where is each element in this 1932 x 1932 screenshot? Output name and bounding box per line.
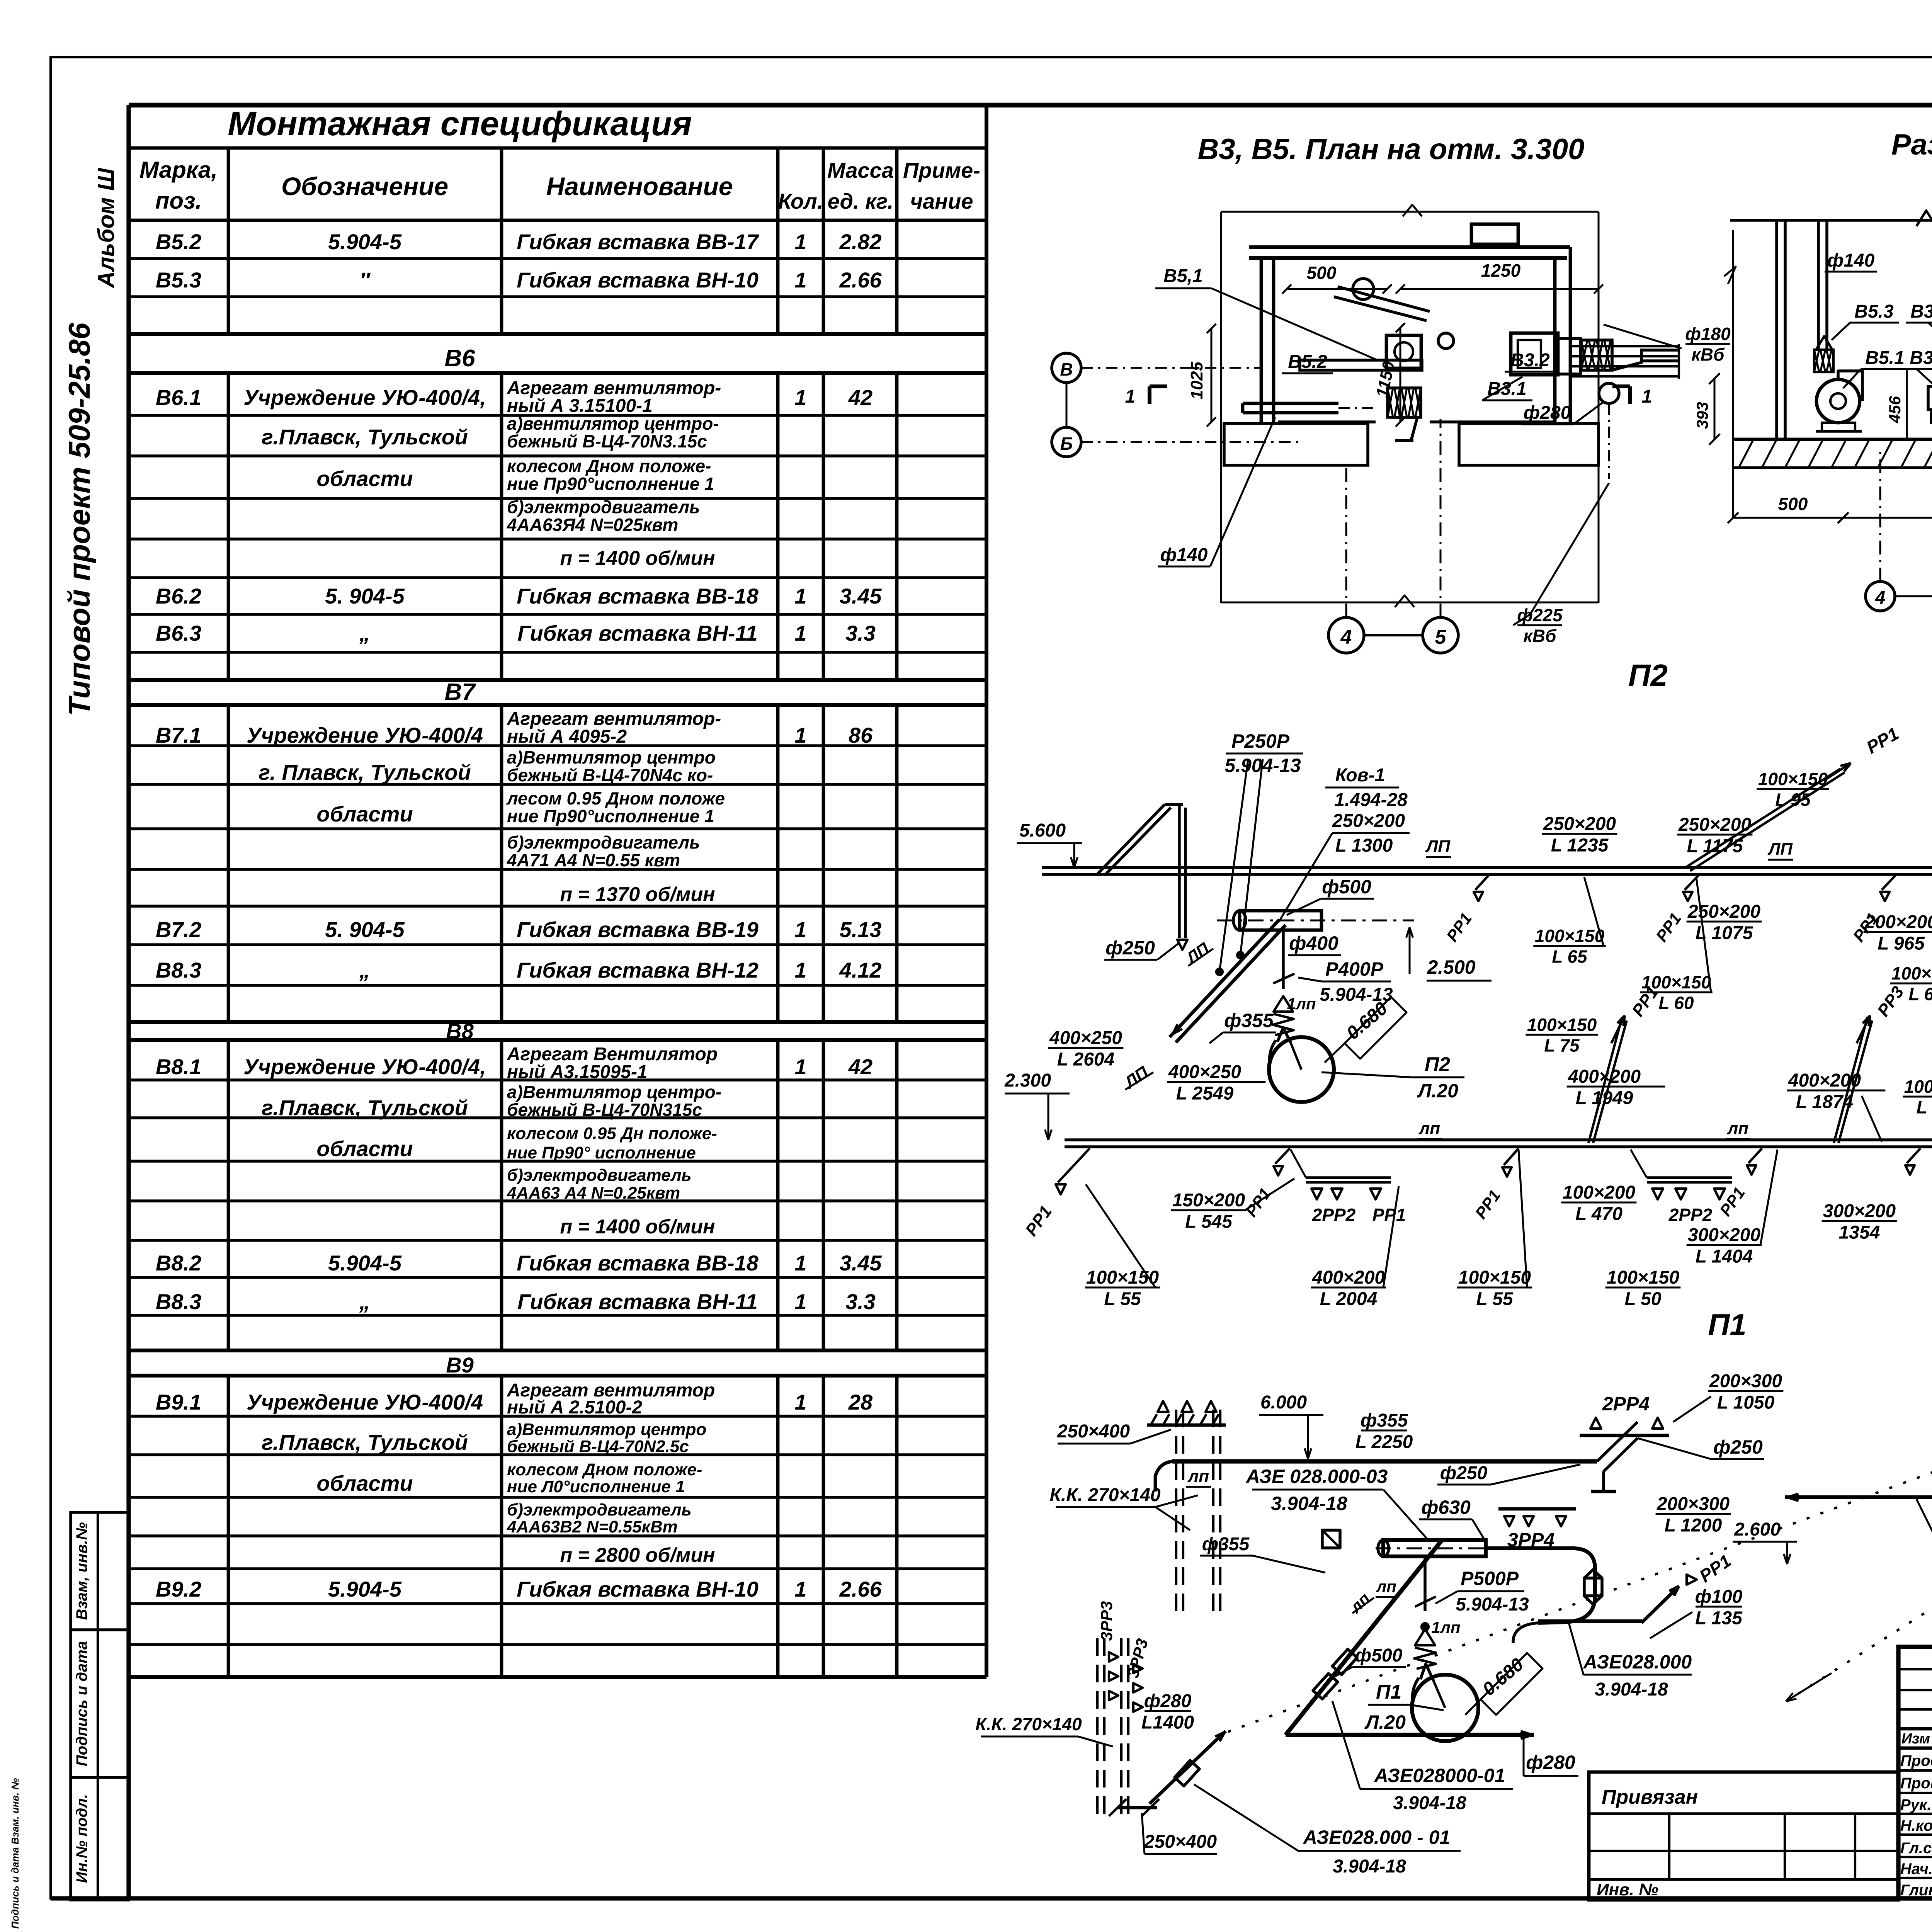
svg-text:3.3: 3.3 (845, 1289, 876, 1314)
svg-text:бежный В-Ц4-70N2.5с: бежный В-Ц4-70N2.5с (507, 1437, 689, 1456)
svg-text:5. 904-5: 5. 904-5 (325, 917, 405, 942)
svg-text:Подпись и дата: Подпись и дата (73, 1641, 90, 1766)
section dim line left (1732, 230, 1734, 518)
plan axis circle 5 (1423, 617, 1458, 653)
svg-text:Приме-: Приме- (903, 158, 980, 182)
plan duct lines through right wall (1570, 345, 1679, 347)
svg-text:В3.1: В3.1 (1487, 379, 1526, 399)
svg-text:колесом Дном положе-: колесом Дном положе- (507, 456, 711, 476)
plan right wall (1553, 258, 1557, 422)
svg-text:ф140: ф140 (1160, 545, 1208, 565)
svg-text:1: 1 (794, 1054, 806, 1079)
svg-text:1: 1 (794, 1577, 806, 1601)
section bottom dim line (1733, 517, 1932, 519)
plan B5 mounting plate (1300, 360, 1422, 370)
svg-text:Р500Р: Р500Р (1461, 1568, 1519, 1589)
svg-text:1: 1 (1642, 386, 1652, 407)
svg-text:1: 1 (794, 621, 806, 645)
svg-text:L 1874: L 1874 (1796, 1092, 1854, 1112)
svg-text:200×300: 200×300 (1656, 1494, 1730, 1514)
svg-text:В9: В9 (446, 1353, 474, 1377)
axis circle V (1052, 353, 1081, 383)
svg-text:5: 5 (1435, 626, 1447, 648)
svg-text:б)электродвигатель: б)электродвигатель (507, 497, 700, 517)
svg-text:П1: П1 (1376, 1681, 1401, 1703)
P2 branch PP1 up from lower line x4120 (1588, 1017, 1622, 1143)
svg-text:г.Плавск, Тульской: г.Плавск, Тульской (262, 1430, 468, 1454)
specification table (129, 146, 986, 150)
svg-text:В8: В8 (446, 1019, 474, 1043)
svg-text:L 545: L 545 (1185, 1212, 1233, 1232)
svg-text:Альбом Ш: Альбом Ш (93, 168, 119, 289)
svg-text:В6: В6 (444, 345, 475, 372)
svg-text:3.3: 3.3 (845, 621, 876, 645)
plan left dim vertical (1220, 212, 1222, 603)
svg-text:L 1050: L 1050 (1717, 1393, 1775, 1413)
fan unit B5.1 plan (1386, 335, 1421, 368)
svg-text:Нач.отд: Нач.отд (1900, 1861, 1932, 1878)
svg-text:L 145: L 145 (1917, 1097, 1932, 1117)
svg-text:L 1300: L 1300 (1335, 835, 1393, 856)
svg-text:Гибкая вставка ВН-11: Гибкая вставка ВН-11 (517, 1289, 758, 1314)
svg-text:ние Пр90° исполнение: ние Пр90° исполнение (507, 1143, 696, 1162)
svg-text:3.45: 3.45 (840, 584, 882, 608)
svg-text:В3.3: В3.3 (1910, 301, 1932, 322)
svg-text:колесом Дном положе-: колесом Дном положе- (507, 1460, 702, 1479)
svg-text:L 60: L 60 (1908, 984, 1932, 1004)
svg-text:L 2250: L 2250 (1355, 1432, 1413, 1452)
P2 branch stub below upper x4390 (1685, 876, 1698, 890)
plan B3 elbow (1558, 338, 1580, 374)
P1 main diagonal duct (1286, 1541, 1441, 1735)
svg-text:Гибкая вставка ВН-10: Гибкая вставка ВН-10 (517, 1577, 759, 1601)
svg-text:Гл.сант: Гл.сант (1900, 1840, 1932, 1857)
svg-text:L 965: L 965 (1878, 934, 1925, 954)
svg-text:лесом 0.95 Дном положе: лесом 0.95 Дном положе (506, 788, 725, 808)
P1 diamond on inlet diagonal (1175, 1760, 1199, 1786)
svg-text:Масса: Масса (827, 158, 894, 182)
fan B3.1 unit in section (1928, 386, 1932, 410)
svg-text:5.904-13: 5.904-13 (1225, 755, 1301, 776)
P1 diamond f500 on diagonal lower (1335, 1664, 1337, 1665)
svg-text:В8.3: В8.3 (156, 1289, 201, 1314)
svg-text:5.904-13: 5.904-13 (1456, 1594, 1529, 1615)
svg-text:2.66: 2.66 (839, 268, 882, 292)
P1 fan flexible connection (1415, 1629, 1435, 1645)
svg-text:п = 2800 об/мин: п = 2800 об/мин (560, 1544, 715, 1566)
svg-text:5.904-13: 5.904-13 (1320, 985, 1393, 1005)
svg-text:п = 1370 об/мин: п = 1370 об/мин (560, 883, 715, 906)
P1 diamond AZE028.000 on right loop (1584, 1578, 1602, 1596)
section axis circle 4 (1866, 582, 1895, 611)
svg-text:ф280: ф280 (1144, 1691, 1192, 1711)
svg-text:П2: П2 (1628, 658, 1668, 692)
svg-text:лп: лп (1727, 1119, 1748, 1138)
plan B3 cone to duct (1612, 340, 1641, 370)
section mark 1 left (1148, 386, 1151, 404)
svg-text:500: 500 (1307, 263, 1337, 283)
svg-text:ЛП: ЛП (1425, 837, 1451, 856)
svg-text:L 60: L 60 (1658, 993, 1694, 1013)
svg-text:Р250Р: Р250Р (1231, 730, 1290, 752)
svg-text:5.904-5: 5.904-5 (328, 1251, 402, 1275)
svg-text:ф355: ф355 (1224, 1010, 1274, 1031)
P1 fan drop pipe (1423, 1556, 1427, 1611)
svg-text:150×200: 150×200 (1172, 1190, 1245, 1211)
svg-text:В5.3: В5.3 (1854, 301, 1894, 322)
P2 upper main duct (1042, 866, 1932, 869)
svg-text:3.904-18: 3.904-18 (1595, 1679, 1668, 1700)
svg-text:2.66: 2.66 (839, 1577, 882, 1601)
svg-text:L 2549: L 2549 (1176, 1083, 1234, 1104)
P2 silencer cylinder f500 (1240, 911, 1321, 930)
svg-text:г.Плавск, Тульской: г.Плавск, Тульской (262, 1095, 468, 1120)
svg-text:1: 1 (1125, 386, 1136, 407)
P2 branch stub PP1 below lower x4970 (1907, 1148, 1920, 1163)
svg-text:г.Плавск, Тульской: г.Плавск, Тульской (262, 425, 468, 449)
svg-text:1: 1 (794, 385, 806, 410)
svg-text:ф400: ф400 (1289, 932, 1338, 954)
svg-text:2.82: 2.82 (839, 230, 882, 254)
plan dim 1025 vertical (1211, 328, 1213, 422)
svg-text:4А71 А4 N=0.55 квт: 4А71 А4 N=0.55 квт (507, 850, 680, 870)
svg-text:п = 1400 об/мин: п = 1400 об/мин (560, 1216, 715, 1238)
svg-text:Марка,: Марка, (139, 157, 218, 183)
svg-text:Глинж.пр: Глинж.пр (1900, 1882, 1932, 1899)
svg-text:В7.1: В7.1 (156, 723, 201, 747)
svg-text:1: 1 (794, 1289, 806, 1314)
axis line V-B (1066, 383, 1068, 427)
svg-text:Л.20: Л.20 (1364, 1711, 1406, 1733)
svg-text:В5.2: В5.2 (156, 230, 201, 254)
svg-text:Ин.9 № подл. Подпись и дата: Ин.9 № подл. Подпись и дата Взам. инв. № (9, 1778, 21, 1932)
P1 down branch f250 (1604, 1438, 1638, 1471)
P2 branch PP3 up from lower line x4750 (1834, 1017, 1867, 1143)
svg-text:400×250: 400×250 (1168, 1062, 1242, 1082)
plan B5 cone (1391, 417, 1417, 440)
svg-text:1: 1 (794, 268, 806, 292)
svg-text:L 1175: L 1175 (1687, 836, 1743, 857)
svg-text:L 1200: L 1200 (1665, 1515, 1722, 1536)
svg-text:Ин.№ подл.: Ин.№ подл. (73, 1794, 90, 1883)
svg-text:кВб: кВб (1691, 345, 1725, 365)
plan B3 f280 outlet circle (1599, 383, 1619, 403)
svg-text:чание: чание (910, 189, 973, 213)
svg-text:бежный В-Ц4-70N4с ко-: бежный В-Ц4-70N4с ко- (507, 765, 713, 785)
unit B3.1 plan (1511, 333, 1558, 375)
svg-text:4.12: 4.12 (839, 958, 882, 982)
svg-text:Учреждение УЮ-400/4: Учреждение УЮ-400/4 (247, 723, 483, 747)
P2 grille 2RR2 below lower line mid (1647, 1176, 1732, 1179)
svg-text:ф355: ф355 (1361, 1410, 1408, 1431)
svg-text:L1400: L1400 (1141, 1713, 1194, 1733)
svg-text:а)Вентилятор центро: а)Вентилятор центро (507, 747, 716, 767)
svg-text:Рук. гр.: Рук. гр. (1900, 1796, 1932, 1813)
svg-text:500: 500 (1778, 494, 1808, 514)
svg-text:100×150: 100×150 (1758, 769, 1828, 789)
P1 inline square on upper duct (1322, 1530, 1340, 1548)
svg-text:1: 1 (794, 230, 806, 254)
svg-text:Н.контр.: Н.контр. (1900, 1817, 1932, 1834)
svg-text:АЗЕ028.000: АЗЕ028.000 (1583, 1651, 1692, 1673)
svg-text:400×200: 400×200 (1788, 1070, 1861, 1091)
svg-text:L 1075: L 1075 (1696, 923, 1753, 944)
svg-text:ф250: ф250 (1713, 1436, 1763, 1458)
svg-text:ф225: ф225 (1517, 605, 1563, 625)
svg-text:п = 1400 об/мин: п = 1400 об/мин (560, 547, 715, 570)
P2 lower main duct (1065, 1138, 1932, 1141)
svg-text:области: области (316, 1136, 413, 1161)
svg-text:L 55: L 55 (1104, 1289, 1141, 1310)
P2 grille 2RR2 PP1 below line (1306, 1176, 1391, 1179)
svg-text:Р400Р: Р400Р (1325, 958, 1384, 980)
svg-text:П1: П1 (1708, 1308, 1746, 1342)
svg-text:″: ″ (360, 268, 371, 292)
P2 fan drop pipe (1282, 930, 1285, 989)
section break mark left (1724, 267, 1736, 284)
svg-text:2.600: 2.600 (1734, 1519, 1781, 1540)
section duct f140 vertical (1817, 220, 1820, 350)
svg-text:250×200: 250×200 (1687, 901, 1761, 922)
svg-text:100×150: 100×150 (1607, 1267, 1680, 1288)
P1 f100 outlet with PP1 (1513, 1623, 1538, 1643)
svg-text:В5.2: В5.2 (1288, 352, 1327, 372)
svg-text:Наименование: Наименование (546, 172, 733, 201)
svg-text:Гибкая вставка ВВ-17: Гибкая вставка ВВ-17 (517, 230, 760, 254)
svg-text:ф250: ф250 (1440, 1463, 1488, 1483)
P2 branch stub below upper line x3850 (1475, 876, 1488, 890)
svg-text:1: 1 (794, 1251, 806, 1275)
svg-text:ф140: ф140 (1827, 250, 1875, 271)
plan B5 flexible insert hatched (1388, 388, 1421, 417)
plan intake diagonal pipes (1338, 287, 1430, 311)
svg-text:В3.1: В3.1 (1910, 348, 1932, 368)
P2 branch stub below upper x4900 (1882, 876, 1895, 890)
svg-text:L 1404: L 1404 (1696, 1247, 1753, 1267)
svg-text:86: 86 (849, 723, 873, 747)
svg-text:4АА63 А4 N=0.25квт: 4АА63 А4 N=0.25квт (507, 1184, 680, 1202)
svg-text:ед. кг.: ед. кг. (828, 189, 894, 213)
svg-text:100×150: 100×150 (1527, 1015, 1597, 1035)
svg-text:области: области (316, 466, 413, 491)
svg-text:Обозначение: Обозначение (281, 172, 448, 201)
svg-text:лп: лп (1187, 1467, 1209, 1486)
svg-text:250×400: 250×400 (1057, 1421, 1130, 1442)
sheet inner frame top (129, 103, 1932, 108)
svg-text:ние Пр90°исполнение 1: ние Пр90°исполнение 1 (507, 474, 714, 494)
P1 grille 2RR4 (1580, 1434, 1669, 1437)
svg-text:области: области (316, 1471, 413, 1495)
svg-text:Учреждение УЮ-400/4: Учреждение УЮ-400/4 (247, 1390, 483, 1414)
P1 roof grilles top-left (1147, 1423, 1226, 1427)
P1 3RR3 dashed risers bottom-left (1096, 1638, 1099, 1821)
P2 branch PP1 mid lower (1504, 1148, 1519, 1165)
svg-text:ный А 4095-2: ный А 4095-2 (507, 726, 627, 747)
svg-text:б)электродвигатель: б)электродвигатель (507, 832, 700, 852)
svg-text:б)электродвигатель: б)электродвигатель (507, 1500, 692, 1519)
svg-text:42: 42 (848, 1054, 872, 1079)
svg-text:а)Вентилятор центро: а)Вентилятор центро (507, 1420, 706, 1439)
svg-text:поз.: поз. (155, 188, 202, 214)
svg-text:П2: П2 (1425, 1053, 1450, 1076)
svg-text:4АА63Я4 N=025квт: 4АА63Я4 N=025квт (507, 515, 678, 535)
svg-text:Б: Б (1060, 434, 1073, 454)
svg-text:200×200: 200×200 (1864, 912, 1932, 932)
svg-text:L 470: L 470 (1575, 1204, 1622, 1225)
P1 grille 3RR4 (1498, 1507, 1576, 1511)
plan bottom dim line (1221, 602, 1599, 604)
svg-text:2РР2: 2РР2 (1668, 1205, 1713, 1225)
section dim 393 (1714, 379, 1716, 439)
svg-text:ЛП: ЛП (1767, 840, 1793, 859)
svg-text:Проект.: Проект. (1900, 1752, 1932, 1769)
section base hatch (1739, 439, 1753, 468)
axis circle B (1052, 427, 1081, 457)
svg-text:Гибкая вставка ВН-10: Гибкая вставка ВН-10 (517, 268, 759, 292)
svg-text:К.К. 270×140: К.К. 270×140 (975, 1714, 1082, 1734)
svg-text:б)электродвигатель: б)электродвигатель (507, 1166, 692, 1185)
P1 diamond f355 on diagonal upper (1332, 1649, 1357, 1675)
svg-text:400×200: 400×200 (1312, 1267, 1385, 1288)
P1 bottom-left grille (1117, 1806, 1157, 1810)
sheet bottom thick line (51, 1896, 1932, 1900)
svg-text:Учреждение УЮ-400/4,: Учреждение УЮ-400/4, (243, 385, 486, 410)
svg-text:L 95: L 95 (1775, 790, 1811, 810)
svg-text:300×200: 300×200 (1688, 1225, 1761, 1245)
svg-text:В: В (1060, 359, 1073, 379)
svg-text:4: 4 (1340, 626, 1352, 648)
svg-text:100×150: 100×150 (1891, 963, 1932, 983)
svg-text:2.500: 2.500 (1427, 956, 1475, 978)
svg-text:ф280: ф280 (1526, 1752, 1575, 1773)
svg-text:1лп: 1лп (1431, 1618, 1460, 1636)
plan B3 flexible insert hatched (1581, 340, 1612, 370)
svg-text:3.904-18: 3.904-18 (1393, 1793, 1466, 1813)
svg-text:ф100: ф100 (1695, 1587, 1743, 1607)
svg-text:6.000: 6.000 (1260, 1392, 1307, 1413)
svg-text:L 75: L 75 (1544, 1036, 1580, 1056)
plan axis circle 4 (1328, 617, 1364, 653)
svg-text:4: 4 (1875, 588, 1886, 608)
P2 branch stubs and grilles lower-left (1275, 1148, 1290, 1164)
plan left wall (1260, 258, 1263, 422)
P2 lower line left branch PP1 (1058, 1148, 1090, 1182)
svg-text:ный А3.15095-1: ный А3.15095-1 (507, 1062, 648, 1082)
svg-text:кВб: кВб (1523, 626, 1557, 646)
svg-text:Кол.: Кол. (778, 189, 823, 213)
svg-text:В3.2: В3.2 (1510, 350, 1550, 371)
svg-text:5.904-5: 5.904-5 (328, 1577, 402, 1601)
section floor line (1733, 438, 1932, 441)
svg-text:Инв. №: Инв. № (1597, 1880, 1658, 1899)
svg-text:„: „ (359, 958, 370, 982)
plan right dim vertical (1598, 212, 1600, 603)
section dim 456 (1906, 369, 1908, 439)
svg-text:ф280: ф280 (1524, 403, 1571, 423)
P1 fan scroll (1412, 1675, 1478, 1741)
svg-text:ф355: ф355 (1202, 1534, 1250, 1554)
svg-text:250×200: 250×200 (1543, 814, 1616, 834)
svg-text:бежный В-Ц4-70N3.15с: бежный В-Ц4-70N3.15с (507, 431, 707, 451)
svg-text:250×200: 250×200 (1678, 815, 1752, 835)
svg-text:лп: лп (1418, 1119, 1440, 1138)
P1 silencer cylinder f630 (1383, 1540, 1486, 1556)
svg-text:Взам, инв.№: Взам, инв.№ (73, 1522, 90, 1620)
svg-text:области: области (316, 802, 413, 826)
svg-text:В7: В7 (444, 679, 476, 706)
svg-text:Гибкая вставка ВВ-18: Гибкая вставка ВВ-18 (517, 584, 759, 608)
svg-text:4АА63В2 N=0.55кВт: 4АА63В2 N=0.55кВт (507, 1517, 678, 1536)
svg-text:100×200: 100×200 (1563, 1182, 1636, 1203)
title block left rows (1898, 1668, 1932, 1670)
svg-text:ф630: ф630 (1421, 1497, 1471, 1518)
svg-text:ф500: ф500 (1355, 1645, 1403, 1666)
svg-text:Учреждение УЮ-400/4,: Учреждение УЮ-400/4, (243, 1054, 486, 1079)
svg-text:Разрез 1-1: Разрез 1-1 (1891, 128, 1932, 161)
svg-text:Л.20: Л.20 (1417, 1080, 1458, 1102)
svg-text:250×400: 250×400 (1144, 1832, 1217, 1852)
svg-text:393: 393 (1693, 402, 1711, 429)
flex insert B5.3 hatched in section (1814, 350, 1833, 372)
svg-text:В6.1: В6.1 (156, 385, 201, 410)
svg-text:L 50: L 50 (1624, 1289, 1661, 1310)
svg-text:200×300: 200×300 (1709, 1371, 1782, 1391)
P1 bottom outlet duct (1286, 1733, 1534, 1737)
svg-text:В6.3: В6.3 (156, 621, 201, 645)
P2 riser drop to f250 (1178, 804, 1181, 938)
privyazan box (1589, 1772, 1898, 1900)
svg-text:5.600: 5.600 (1019, 820, 1066, 841)
svg-text:Типовой проект 509-25.86: Типовой проект 509-25.86 (62, 322, 96, 716)
svg-text:2РР4: 2РР4 (1602, 1393, 1650, 1415)
svg-text:100×150: 100×150 (1535, 926, 1605, 946)
svg-text:В3, В5. План на отм. 3.300: В3, В5. План на отм. 3.300 (1198, 133, 1585, 166)
svg-text:Гибкая вставка ВН-12: Гибкая вставка ВН-12 (517, 958, 759, 982)
section top slab line (1730, 219, 1932, 222)
svg-text:ф250: ф250 (1105, 937, 1155, 959)
svg-text:5. 904-5: 5. 904-5 (325, 584, 405, 608)
svg-text:В5.3: В5.3 (156, 268, 201, 292)
plan top dim line (1221, 211, 1599, 213)
svg-text:L 2604: L 2604 (1057, 1049, 1115, 1070)
svg-text:L 135: L 135 (1695, 1608, 1743, 1629)
svg-text:L 65: L 65 (1552, 947, 1588, 967)
P1 dotted transfer lines (1228, 1408, 1932, 1732)
svg-text:К.К. 270×140: К.К. 270×140 (1049, 1485, 1161, 1505)
plan window rect on top wall (1471, 224, 1518, 244)
svg-text:В6.2: В6.2 (156, 584, 201, 608)
svg-text:456: 456 (1886, 396, 1904, 423)
plan dim 1150 vertical (1400, 328, 1401, 422)
plan duct f140 (1243, 402, 1338, 405)
svg-text:лп: лп (1376, 1577, 1396, 1595)
plan lower-left foundation (1224, 423, 1368, 465)
svg-text:Привязан: Привязан (1602, 1786, 1698, 1808)
section mark 1 right (1628, 386, 1632, 404)
P1 right loop duct (1486, 1548, 1595, 1578)
svg-text:г. Плавск, Тульской: г. Плавск, Тульской (259, 760, 471, 784)
svg-text:Гибкая вставка ВН-11: Гибкая вставка ВН-11 (517, 621, 758, 645)
plan centerline from axis 4 (1345, 468, 1347, 617)
svg-text:В8.1: В8.1 (156, 1054, 201, 1079)
svg-text:В8.3: В8.3 (156, 958, 201, 982)
svg-text:В7.2: В7.2 (156, 917, 201, 942)
svg-text:Ков-1: Ков-1 (1335, 765, 1385, 786)
P1 bottom-left inlet diagonal (1150, 1731, 1226, 1804)
svg-text:Монтажная спецификация: Монтажная спецификация (228, 104, 692, 143)
section wall column A (1775, 220, 1778, 439)
svg-text:„: „ (359, 621, 370, 645)
